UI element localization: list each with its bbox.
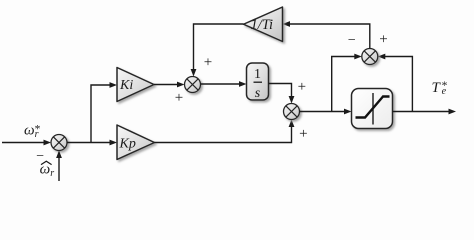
svg-text:s: s	[255, 86, 261, 101]
svg-text:*: *	[35, 124, 41, 136]
gain block Kp	[117, 125, 155, 160]
gain block Ki	[117, 68, 154, 102]
label T_e*	[432, 80, 448, 97]
wire S2 to integrator	[201, 81, 247, 87]
svg-text:+: +	[299, 126, 307, 142]
summing junction S1	[51, 135, 67, 151]
wire Ki to S2	[154, 82, 185, 88]
svg-text:+: +	[298, 79, 306, 95]
wire S3 to saturation	[300, 109, 352, 115]
wire tap pre-saturation to S4 left	[332, 54, 362, 112]
summing junction S3	[284, 104, 300, 120]
svg-text:1: 1	[254, 67, 261, 82]
svg-text:+: +	[204, 54, 212, 70]
summing junction S4	[362, 49, 378, 65]
wire input omega_r* to S1	[2, 140, 51, 146]
label omega_hat_r	[40, 161, 55, 179]
svg-text:r: r	[50, 168, 54, 179]
wire output T_e*	[393, 109, 457, 115]
svg-text:ω: ω	[24, 123, 35, 139]
svg-text:*: *	[442, 80, 448, 92]
wire S1 to Kp	[67, 140, 117, 146]
wire integrator to S3 top	[269, 84, 295, 104]
svg-text:Kp: Kp	[119, 137, 136, 152]
wire Kp to S3 bottom	[155, 120, 295, 143]
wire 1/Ti to S2	[191, 24, 244, 77]
summing junction S2	[185, 77, 201, 93]
wire tap post-saturation to S4 right	[378, 54, 413, 112]
wire S4 to 1/Ti	[283, 21, 370, 48]
gain block 1/Ti	[244, 7, 283, 42]
svg-text:−: −	[348, 33, 356, 48]
svg-text:Ki: Ki	[119, 78, 133, 93]
svg-text:1/Ti: 1/Ti	[251, 17, 274, 33]
label omega_r*	[24, 123, 41, 141]
svg-text:+: +	[379, 31, 387, 47]
wire branch node to Ki	[91, 82, 117, 142]
integrator block 1/s	[247, 63, 269, 101]
svg-text:+: +	[175, 90, 183, 106]
saturation block	[352, 89, 393, 129]
wire feedback omega_hat into S1 bottom	[56, 151, 62, 182]
